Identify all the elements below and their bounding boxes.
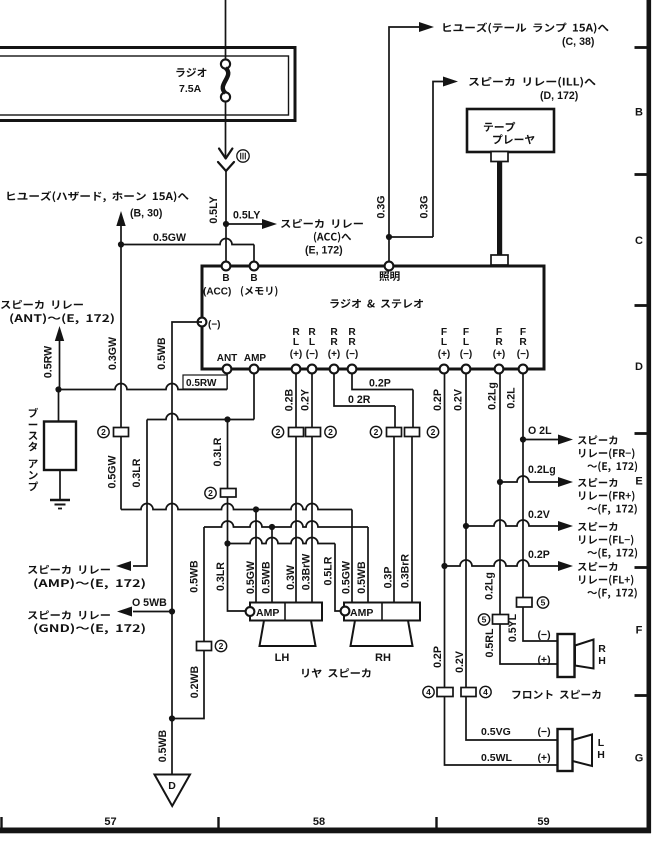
svg-text:5: 5 — [541, 598, 546, 608]
svg-text:0.2P: 0.2P — [369, 378, 391, 390]
text radio & stereo — [330, 299, 423, 308]
wire 0.2WB to gnd node — [172, 651, 204, 719]
text (AMP)(E,172) — [34, 578, 145, 589]
text speaker relay GND — [28, 610, 110, 619]
svg-text:R: R — [495, 337, 503, 348]
svg-text:0.5LY: 0.5LY — [233, 210, 260, 222]
text relay FR+ l1 — [578, 478, 618, 487]
junction FL- branch — [463, 523, 469, 529]
svg-text:0.5GW: 0.5GW — [245, 561, 257, 594]
svg-text:(−): (−) — [306, 349, 319, 360]
text relay FR- l3 — [587, 461, 637, 472]
circled 2 pair — [370, 426, 381, 437]
svg-text:D: D — [635, 361, 643, 373]
wire 0.5GW LH amp — [255, 510, 257, 603]
svg-text:0.2V: 0.2V — [453, 389, 465, 411]
LH amp box — [250, 603, 322, 621]
text relay FR- l2 — [579, 448, 634, 459]
svg-text:0.2WB: 0.2WB — [189, 665, 201, 698]
svg-text:2: 2 — [328, 427, 333, 437]
bus3 0.5LR — [228, 538, 336, 544]
svg-text:0.3G: 0.3G — [376, 196, 388, 219]
circled 2 pair — [272, 426, 283, 437]
wire 0.5GW below connector — [120, 437, 122, 510]
junction FR- branch — [520, 436, 526, 442]
text relay FL- l3 — [587, 548, 637, 559]
bus2 0.5WB — [204, 521, 368, 527]
fuse box outer — [0, 48, 295, 121]
text booster amp vertical — [29, 408, 38, 418]
text (ACC) he — [314, 232, 351, 243]
text speaker relay ILL — [469, 77, 596, 88]
arrow up to hazard fuse — [116, 211, 125, 226]
junction gnd — [169, 608, 175, 614]
svg-text:5: 5 — [482, 615, 487, 625]
arrow FR- — [558, 435, 573, 445]
svg-text:AMP: AMP — [244, 353, 267, 364]
svg-text:(+): (+) — [290, 349, 303, 360]
svg-text:D: D — [168, 780, 176, 792]
inline connector symbol — [219, 149, 232, 159]
radio terminals top — [222, 262, 231, 271]
svg-text:2: 2 — [208, 488, 213, 498]
svg-text:0.5RL: 0.5RL — [484, 628, 496, 657]
svg-text:(−): (−) — [346, 349, 359, 360]
circled 2 — [205, 487, 216, 498]
text relay FL+ l3 — [587, 588, 636, 599]
svg-text:2: 2 — [276, 427, 281, 437]
svg-text:0.5VG: 0.5VG — [481, 726, 511, 738]
svg-text:0.5WB: 0.5WB — [189, 560, 201, 593]
wire 0.2P down — [412, 390, 414, 428]
svg-text:0.3W: 0.3W — [285, 565, 297, 590]
svg-text:0.5WB: 0.5WB — [156, 337, 168, 370]
circled 4 pair — [423, 686, 434, 697]
svg-text:L: L — [463, 337, 469, 348]
wire 0.3P to RH amp — [393, 437, 395, 603]
wire 0.5WB RH amp — [367, 527, 369, 602]
junction FR+ branch — [497, 479, 503, 485]
svg-text:E: E — [635, 476, 642, 488]
svg-text:F: F — [636, 625, 643, 637]
svg-text:0.2Lg: 0.2Lg — [528, 464, 556, 476]
front LH speaker — [558, 729, 573, 771]
wire 0.5WB from (-) — [172, 322, 202, 612]
svg-text:0.5WB: 0.5WB — [356, 561, 368, 594]
wire 0.2R jog — [334, 373, 395, 406]
tape connector top — [491, 152, 508, 162]
svg-text:0.5LR: 0.5LR — [323, 556, 335, 585]
arrow to tail lamp fuse — [419, 22, 434, 32]
svg-text:0.2V: 0.2V — [528, 509, 550, 521]
svg-text:C: C — [635, 235, 643, 247]
text shoumei — [379, 271, 399, 281]
svg-text:H: H — [597, 749, 605, 761]
svg-text:(−): (−) — [537, 629, 550, 641]
wire fuse to connector III — [225, 102, 227, 159]
ground — [50, 499, 70, 502]
wire 0.5LY to B(ACC) — [225, 171, 227, 266]
junction 0.2WB — [169, 715, 175, 721]
svg-text:AMP: AMP — [256, 607, 279, 619]
wire 0.5LR to RH amp — [335, 544, 341, 612]
svg-text:(+): (+) — [537, 752, 550, 764]
svg-text:0.3LR: 0.3LR — [131, 458, 143, 487]
svg-text:B: B — [222, 273, 229, 284]
svg-text:H: H — [598, 655, 606, 667]
svg-text:0.5WB: 0.5WB — [157, 729, 169, 762]
wire 0.5GW to B(memory) — [121, 239, 254, 245]
svg-text:(+): (+) — [328, 349, 341, 360]
wire 0.2B — [295, 373, 297, 427]
junction bus2 LH — [269, 524, 275, 530]
svg-text:0.2Y: 0.2Y — [300, 389, 312, 411]
tape player box — [467, 109, 554, 152]
wire up to ANT terminal — [226, 374, 228, 390]
svg-text:57: 57 — [104, 816, 116, 828]
text front speaker — [512, 690, 600, 699]
wire 0.3LR to LH amp — [228, 497, 246, 611]
text relay FR+ l2 — [579, 491, 634, 502]
connector 2 rear L pair b — [306, 428, 321, 437]
svg-text:0.5RW: 0.5RW — [43, 346, 55, 378]
connector 2 on 0.2WB — [197, 642, 212, 651]
wire 0.2P front — [444, 373, 446, 687]
wire amp link horizontal — [147, 414, 254, 420]
junction 0.5GW — [118, 241, 124, 247]
svg-text:L: L — [441, 337, 447, 348]
connector 2 on 0.3LR — [221, 489, 237, 498]
svg-text:R: R — [330, 337, 338, 348]
wire 0.2P jog — [352, 373, 413, 390]
label radio — [176, 68, 206, 77]
svg-text:0.5GW: 0.5GW — [107, 456, 119, 489]
connector D triangle — [155, 775, 191, 807]
circled 2 — [215, 640, 226, 651]
wire 0.2Y — [311, 373, 313, 427]
junction bus1 LH — [253, 506, 259, 512]
svg-text:(B, 30): (B, 30) — [130, 208, 162, 220]
arrow FL+ — [558, 561, 573, 571]
wire to booster amp — [58, 390, 60, 422]
fuse F (radio 7.5A) — [221, 59, 230, 68]
svg-text:RH: RH — [375, 652, 391, 664]
arrow FL- — [558, 521, 573, 531]
svg-text:0.2B: 0.2B — [284, 388, 296, 411]
wire from top to fuse — [225, 0, 227, 60]
connector 2 on 0.5GW — [114, 428, 129, 437]
svg-text:0.3LR: 0.3LR — [212, 437, 224, 466]
wire 0.5WB to D — [171, 612, 173, 775]
wire to hazard arrow — [120, 225, 122, 245]
wire 0.5GW RH amp — [351, 510, 353, 603]
wire 0.5YL to front RH- — [523, 607, 557, 641]
svg-text:B: B — [635, 107, 643, 119]
wire 0.5VG to front LH- — [466, 697, 557, 741]
junction 0.3G — [386, 234, 392, 240]
junction 0.3LR — [224, 416, 230, 422]
text relay FR- l1 — [578, 435, 618, 444]
wire down to B(memory) — [253, 245, 255, 267]
svg-text:0.5WL: 0.5WL — [481, 752, 513, 764]
page border right — [647, 0, 652, 833]
svg-text:2: 2 — [219, 641, 224, 651]
front RH speaker — [558, 634, 575, 677]
svg-text:0.5GW: 0.5GW — [341, 561, 353, 594]
svg-text:(+): (+) — [537, 654, 550, 666]
svg-text:0.2L: 0.2L — [506, 387, 518, 409]
grid ticks bottom — [0, 817, 2, 828]
LH rear speaker — [260, 621, 316, 647]
svg-text:(E, 172): (E, 172) — [305, 245, 343, 257]
svg-text:2: 2 — [374, 427, 379, 437]
connector 4 on 0.2P — [437, 688, 453, 697]
text speaker relay ANT — [1, 300, 83, 309]
wire 0.3G to ILL relay — [433, 82, 445, 238]
wire 0.2Lg front — [499, 373, 501, 614]
tape connector bottom — [491, 255, 508, 265]
radio & stereo unit box — [202, 266, 544, 369]
connector 2 rear R pair b — [405, 428, 420, 437]
text tape — [484, 122, 515, 132]
svg-text:(+): (+) — [438, 349, 451, 360]
svg-text:0.5WB: 0.5WB — [261, 561, 273, 594]
svg-text:L: L — [598, 737, 605, 749]
arrow FR+ — [558, 477, 573, 487]
svg-text:0.5RW: 0.5RW — [186, 378, 217, 389]
svg-text:0.2P: 0.2P — [528, 549, 550, 561]
RH rear speaker — [351, 621, 413, 647]
wire 0.5WB LH amp — [271, 527, 273, 602]
junction bus3 — [224, 540, 230, 546]
svg-text:(C, 38): (C, 38) — [562, 36, 594, 48]
wire 0.3LR down — [227, 420, 229, 489]
svg-text:(D, 172): (D, 172) — [540, 90, 578, 102]
arrow to speaker relay AMP — [116, 561, 131, 571]
text speaker relay AMP — [28, 565, 110, 574]
svg-text:0.5GW: 0.5GW — [153, 232, 186, 244]
wire 0.5WL to front LH+ — [445, 697, 558, 766]
wire 0.5LY branch to ACC relay — [226, 223, 263, 225]
text relay FR+ l3 — [587, 504, 636, 515]
wire 0.3W to LH amp — [295, 437, 297, 603]
wire 0.2V front — [465, 373, 467, 687]
svg-text:0.5LY: 0.5LY — [208, 196, 220, 223]
text relay FL+ l2 — [579, 575, 633, 586]
text speaker relay ACC — [281, 219, 363, 228]
svg-text:AMP: AMP — [350, 607, 373, 619]
junction FL+ branch — [441, 563, 447, 569]
svg-text:0.3P: 0.3P — [383, 567, 395, 589]
arrow to speaker relay ACC — [262, 219, 277, 229]
wire 0.5RW up arrow stem — [59, 340, 61, 390]
text (GND)(E,172) — [34, 623, 145, 634]
svg-text:O 2L: O 2L — [528, 425, 552, 437]
wire 0.3G to tail lamp fuse — [389, 27, 421, 264]
svg-text:0.2Lg: 0.2Lg — [484, 572, 496, 600]
text relay FL- l1 — [578, 522, 618, 531]
svg-text:(−): (−) — [517, 349, 530, 360]
label (memory) — [241, 286, 278, 297]
svg-text:(−): (−) — [537, 726, 550, 738]
svg-text:2: 2 — [431, 427, 436, 437]
text relay FL- l2 — [579, 535, 633, 546]
page border bottom bar — [0, 828, 651, 834]
svg-text:(+): (+) — [493, 349, 506, 360]
svg-text:0.3GW: 0.3GW — [107, 337, 119, 370]
junction booster — [55, 386, 61, 392]
svg-text:2: 2 — [101, 427, 106, 437]
svg-text:G: G — [635, 753, 644, 765]
svg-text:58: 58 — [313, 816, 325, 828]
svg-text:ANT: ANT — [217, 353, 238, 364]
fuse box inner — [0, 56, 289, 115]
svg-text:0.3BrW: 0.3BrW — [301, 554, 313, 591]
label box 0.5RW — [183, 375, 227, 389]
svg-text:R: R — [519, 337, 527, 348]
svg-text:4: 4 — [426, 687, 431, 697]
svg-text:0.2Lg: 0.2Lg — [487, 382, 499, 410]
svg-text:0.2V: 0.2V — [454, 651, 466, 673]
svg-text:0.2P: 0.2P — [432, 646, 444, 668]
circled 5 — [478, 614, 489, 625]
tape cable — [497, 161, 502, 256]
svg-text:O 5WB: O 5WB — [132, 597, 167, 609]
wire 0.3GW down — [120, 245, 122, 428]
wire 0.5RL to front RH+ — [500, 624, 557, 664]
arrow to speaker relay ILL — [443, 77, 458, 87]
svg-text:B: B — [250, 273, 257, 284]
text rear speaker — [302, 668, 370, 678]
arrow to speaker relay GND — [117, 607, 132, 617]
wire booster to ground — [59, 470, 61, 499]
text fuse tail lamp — [443, 23, 608, 34]
svg-text:L: L — [293, 337, 299, 348]
svg-text:LH: LH — [275, 652, 290, 664]
junction 0.5LY branch — [223, 221, 229, 227]
wire 0.3LR to AMP relay — [133, 420, 147, 567]
wire 0.3BrW to LH amp — [311, 437, 313, 603]
wire 0.2L front — [522, 373, 524, 597]
svg-text:0.3LR: 0.3LR — [215, 562, 227, 591]
arrow up to ANT relay — [55, 326, 64, 341]
svg-text:R: R — [348, 337, 356, 348]
wire to GND relay — [133, 611, 172, 613]
svg-text:(−): (−) — [208, 320, 221, 331]
text relay FL+ l1 — [578, 562, 618, 571]
svg-text:0 2R: 0 2R — [348, 394, 371, 406]
svg-text:L: L — [309, 337, 315, 348]
connector 5 on 0.2L — [517, 598, 533, 608]
connector 4 on 0.2V — [461, 688, 476, 697]
svg-text:4: 4 — [483, 687, 488, 697]
wire from AMP terminal — [253, 373, 255, 420]
wire 0.3BrR to RH amp — [411, 437, 413, 603]
wire 0.5WB drop — [203, 527, 205, 641]
svg-text:(ACC): (ACC) — [203, 287, 231, 298]
svg-text:0.3BrR: 0.3BrR — [400, 554, 412, 588]
wire 0.5RW to ANT terminal — [59, 384, 228, 390]
text fuse hazard horn — [7, 191, 188, 202]
circled 2 — [98, 426, 109, 437]
connector 2 rear R pair a — [387, 428, 402, 437]
circled 5 — [537, 597, 548, 608]
wire 0.2R down — [394, 406, 396, 427]
svg-text:0.2P: 0.2P — [432, 389, 444, 411]
svg-text:7.5A: 7.5A — [179, 83, 202, 95]
svg-text:R: R — [598, 643, 606, 655]
svg-text:59: 59 — [537, 816, 549, 828]
connector 5 on 0.2Lg — [493, 615, 509, 625]
text player — [493, 134, 534, 144]
bus1 0.5GW — [121, 504, 352, 510]
grid ticks right — [635, 46, 647, 49]
svg-text:0.3G: 0.3G — [419, 196, 431, 219]
wire 0.3G link — [389, 236, 433, 238]
radio terminals bottom — [223, 365, 232, 374]
svg-text:(−): (−) — [460, 349, 473, 360]
text (ANT) (E,172) — [10, 313, 114, 324]
radio terminal left (-) — [198, 318, 207, 327]
RH amp box — [344, 603, 420, 621]
connector 2 rear L pair a — [289, 428, 304, 437]
